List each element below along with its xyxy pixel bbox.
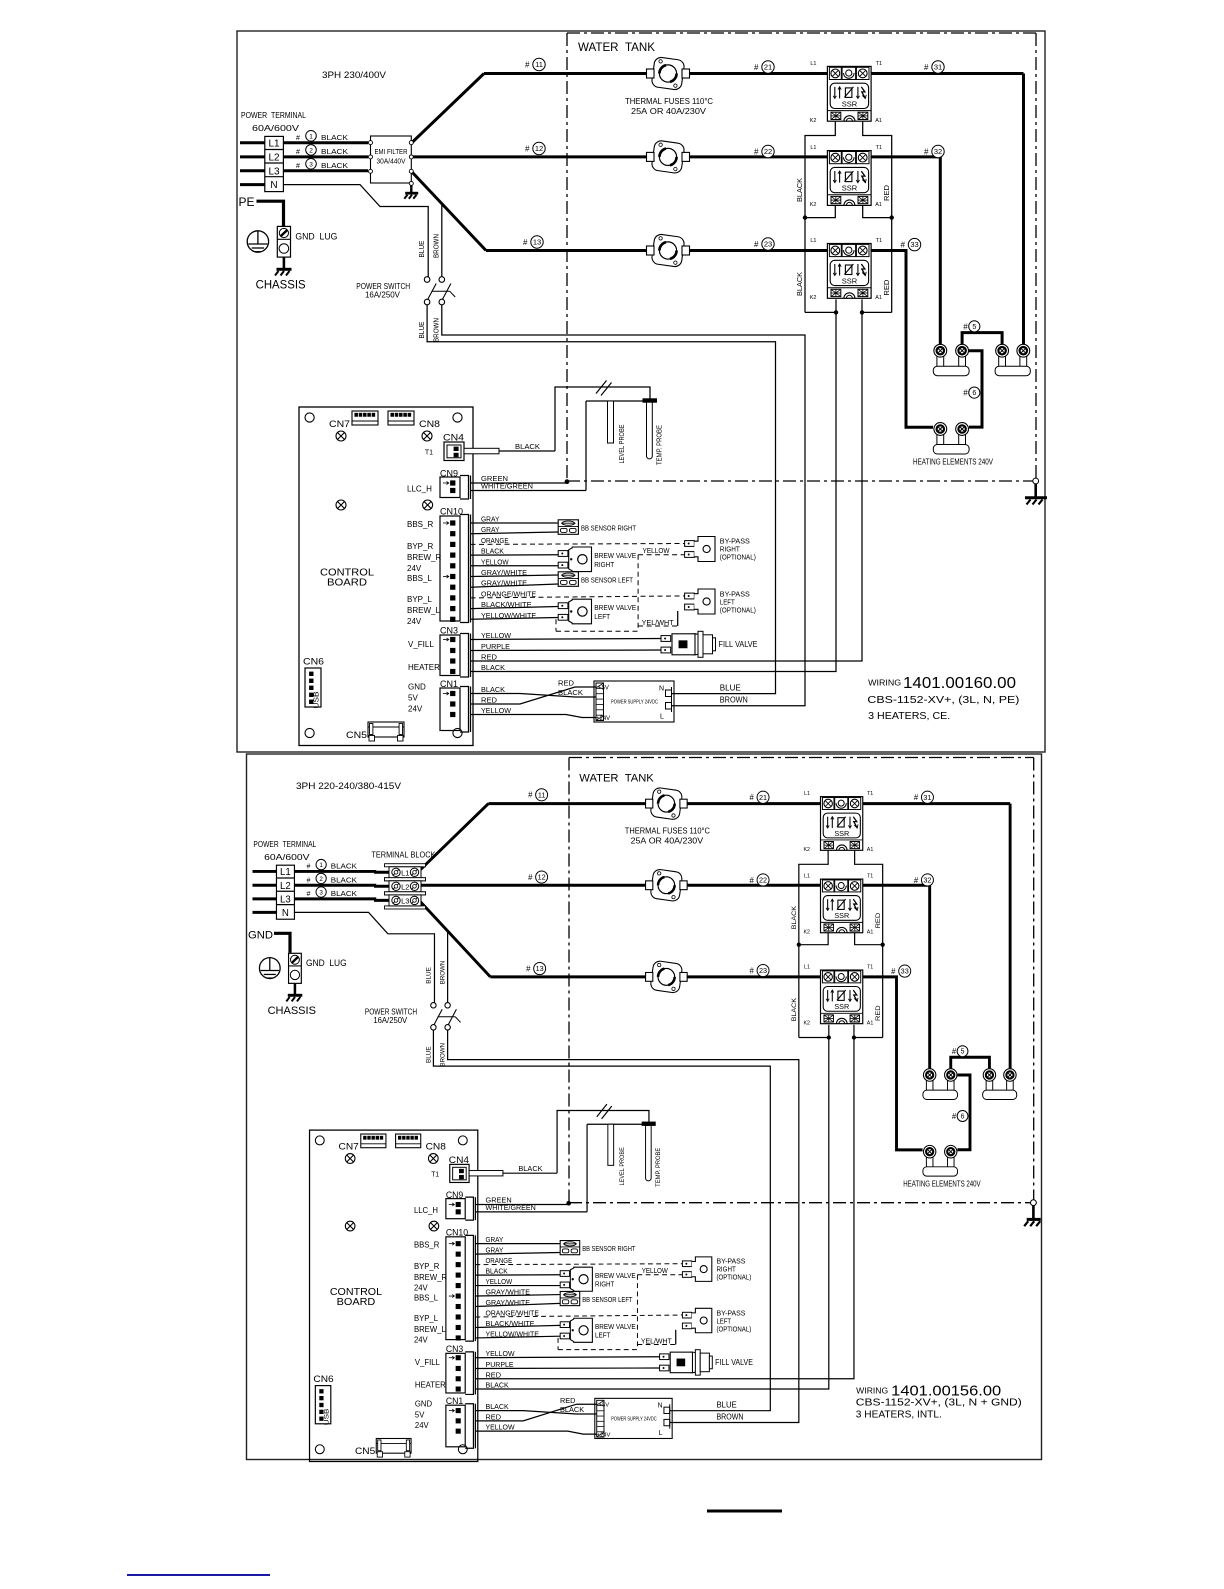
svg-text:L3: L3 [401,896,409,905]
svg-text:GND: GND [248,930,273,942]
svg-text:PE: PE [239,195,255,209]
svg-text:L2: L2 [401,882,409,891]
svg-text:30A/440V: 30A/440V [377,159,406,166]
svg-text:CBS-1152-XV+, (3L, N, PE): CBS-1152-XV+, (3L, N, PE) [867,695,1019,706]
svg-text:3 HEATERS, CE.: 3 HEATERS, CE. [868,711,950,722]
svg-text:EMI FILTER: EMI FILTER [375,149,408,156]
svg-text:CBS-1152-XV+, (3L, N + GND): CBS-1152-XV+, (3L, N + GND) [856,1398,1022,1409]
svg-text:3 HEATERS, INTL.: 3 HEATERS, INTL. [856,1410,942,1421]
svg-text:L1: L1 [401,868,409,877]
svg-text:1401.00160.00: 1401.00160.00 [903,675,1016,692]
svg-text:WIRING: WIRING [856,1386,888,1396]
svg-text:3PH 230/400V: 3PH 230/400V [322,70,386,80]
svg-text:3PH 220-240/380-415V: 3PH 220-240/380-415V [296,781,401,791]
svg-text:TERMINAL BLOCK: TERMINAL BLOCK [371,850,435,860]
svg-text:WIRING: WIRING [868,678,901,688]
